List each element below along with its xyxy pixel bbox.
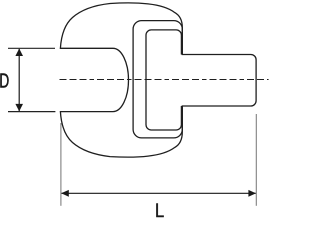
D extension line top [8, 47, 55, 49]
centerline (dash-dot) [60, 79, 269, 81]
outer rounded square (boss contour, open across shank) [133, 21, 182, 138]
wrench head and shank outline [60, 3, 256, 157]
svg-text:L: L [155, 200, 164, 218]
L arrow left [61, 190, 69, 197]
svg-text:D: D [0, 69, 9, 92]
inner rounded square (drive hole, open across shank) [146, 30, 181, 130]
D extension line bottom [8, 111, 55, 113]
L dimension line [62, 192, 256, 194]
L extension line right [255, 114, 257, 206]
D arrow down [15, 104, 23, 112]
L arrow right [248, 190, 256, 197]
D arrow up [15, 49, 23, 57]
D dimension line [18, 49, 20, 111]
L extension line left [60, 123, 62, 206]
